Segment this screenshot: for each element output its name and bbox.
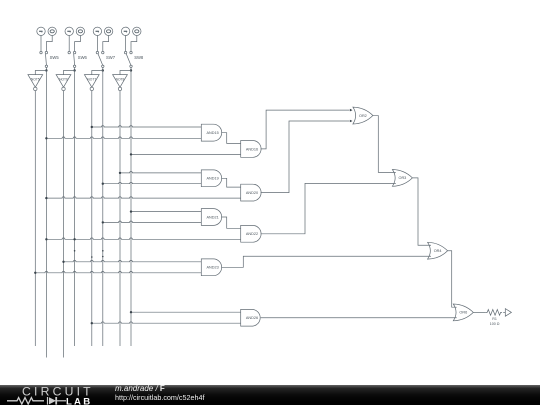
logic source 1 for SW5: [37, 27, 45, 35]
wire AND15 output to AND16 input: [221, 133, 240, 144]
svg-text:OR3: OR3: [398, 176, 406, 180]
logic source 0 for SW5: [48, 27, 56, 35]
wire OR2 output to OR3 input 1: [373, 116, 396, 173]
junction at SW8 output node: [130, 69, 132, 71]
junction on rail 1: [34, 272, 36, 274]
wire source-0 to SW5 right throw: [46, 36, 52, 52]
junction on rail 8: [130, 311, 132, 313]
wire source-1 to SW6 left throw: [68, 36, 70, 52]
junction on rail 2: [45, 137, 47, 139]
logic source 0 for SW7: [104, 27, 112, 35]
inverter NOT5: [28, 75, 43, 91]
wire source-0 to SW7 right throw: [103, 36, 109, 52]
logic source 1 for SW8: [121, 27, 129, 35]
wire source-0 to SW8 right throw: [131, 36, 137, 52]
wire source-1 to SW8 left throw: [125, 36, 127, 52]
wire AND21 input A (D) from rail: [131, 211, 201, 213]
and-gate AND23: [201, 259, 221, 276]
and-gate AND16: [241, 141, 261, 158]
junction on rail 2: [45, 238, 47, 240]
junction at SW7 output node: [102, 69, 104, 71]
or-gate OR3: [392, 170, 412, 187]
svg-text:AND19: AND19: [206, 177, 218, 181]
wire SW8 pole to node: [130, 68, 132, 71]
svg-text:SW7: SW7: [106, 55, 116, 60]
junction on rail 7: [119, 172, 121, 174]
svg-text:NOT7: NOT7: [87, 77, 96, 81]
wire AND16 input B (D) from rail: [131, 153, 241, 155]
wire AND21 output to AND22 input: [221, 217, 240, 228]
svg-text:OR2: OR2: [359, 114, 367, 118]
svg-text:NOT6: NOT6: [59, 77, 68, 81]
wire AND23 input B (A') from rail: [35, 271, 201, 272]
wire AND19 input A (D') from rail: [120, 172, 201, 173]
junction on rail 4: [73, 238, 75, 240]
and-gate AND26: [241, 309, 260, 326]
svg-text:AND20: AND20: [246, 191, 258, 195]
svg-text:OR4: OR4: [434, 249, 442, 253]
svg-text:AND15: AND15: [206, 131, 218, 135]
wire OR6 output to resistor R1: [473, 311, 486, 313]
wire AND15 input B (A) from rail: [46, 137, 201, 138]
wire AND23 output to OR4 input 2: [221, 256, 431, 267]
logic source 0 for SW6: [76, 27, 84, 35]
wire AND26 input B (C) from rail: [92, 322, 241, 323]
inverter NOT7: [84, 75, 99, 91]
wire SW7 node to NOT7 input: [92, 71, 103, 75]
inverter NOT8: [113, 75, 128, 91]
or-gate OR2: [353, 107, 373, 124]
wire AND23 input A (B') from rail: [64, 260, 202, 261]
svg-text:SW8: SW8: [134, 55, 144, 60]
or-gate OR4: [428, 242, 448, 259]
wire SW5 direct rail: [45, 71, 47, 358]
svg-text:LAB: LAB: [66, 396, 92, 406]
junction at SW5 output node: [45, 69, 47, 71]
and-gate AND15: [201, 124, 221, 141]
and-gate AND22: [241, 225, 261, 242]
wire AND19 input B (C) from rail: [103, 182, 202, 183]
junction on rail 8: [130, 210, 132, 212]
switch SW7: [96, 51, 116, 67]
junction on rail 6: [102, 221, 104, 223]
svg-text:AND23: AND23: [206, 266, 218, 270]
svg-text:AND26: AND26: [246, 316, 258, 320]
svg-text:AND21: AND21: [206, 215, 218, 219]
or-gate OR6: [453, 304, 473, 321]
wire NOT6 output rail: [63, 91, 65, 358]
junction on rail 3: [62, 261, 64, 263]
svg-text:100 Ω: 100 Ω: [490, 322, 500, 326]
svg-text:SW6: SW6: [78, 55, 88, 60]
junction on rail 2: [45, 197, 47, 199]
wire AND22 input B (A/B) from rail: [46, 238, 240, 239]
svg-text:NOT5: NOT5: [31, 77, 40, 81]
wire SW7 direct rail: [102, 71, 104, 347]
wire AND20 input B (A) from rail: [46, 197, 240, 198]
wire source-0 to SW6 right throw: [75, 36, 81, 52]
and-gate AND21: [201, 209, 221, 226]
footer text: [115, 384, 205, 403]
wire SW6 node to NOT6 input: [64, 71, 75, 75]
wire NOT8 output rail: [119, 91, 121, 346]
wire SW6 pole to node: [74, 68, 76, 71]
wire AND26 output to OR6 input 2: [261, 317, 457, 319]
and-gate AND20: [241, 184, 261, 201]
wire joint on rail: [102, 256, 104, 258]
CircuitLab logo: [6, 386, 106, 411]
wire AND19 output to AND20 input: [221, 178, 240, 187]
wire source-1 to SW5 left throw: [40, 36, 42, 52]
svg-text:OR6: OR6: [459, 311, 467, 315]
logic source 0 for SW8: [133, 27, 141, 35]
wire joint on rail: [74, 250, 76, 252]
wire SW7 pole to node: [102, 68, 104, 71]
arrowhead at OR2 input 2: [350, 120, 353, 123]
svg-text:AND16: AND16: [246, 147, 258, 151]
inverter NOT6: [56, 75, 71, 91]
svg-text:NOT8: NOT8: [116, 77, 125, 81]
wire AND15 input A (C) from rail: [92, 126, 202, 127]
junction at SW6 output node: [73, 69, 75, 71]
wire AND16 output to OR2 input 1: [261, 110, 350, 149]
svg-text:R1: R1: [492, 317, 497, 321]
junction on rail 8: [130, 153, 132, 155]
wire SW5 pole to node: [45, 68, 47, 71]
wire SW8 direct rail: [130, 71, 132, 347]
switch SW8: [124, 51, 144, 67]
wire AND22 output to OR3 input 2: [261, 183, 396, 233]
wire NOT5 output rail: [34, 91, 36, 346]
output pin F: [505, 309, 511, 317]
and-gate AND19: [201, 170, 221, 187]
svg-text:AND22: AND22: [246, 232, 258, 236]
svg-text:SW5: SW5: [50, 55, 60, 60]
switch SW5: [40, 51, 60, 67]
wire NOT7 output rail: [91, 91, 93, 346]
wire SW5 node to NOT5 input: [35, 71, 46, 75]
resistor R1 100 Ohm: [486, 310, 502, 327]
wire OR4 output to OR6 input 1: [448, 251, 457, 307]
wire SW8 node to NOT8 input: [120, 71, 131, 75]
wire joint on rail: [102, 250, 104, 252]
junction on rail 5: [91, 322, 93, 324]
wire source-1 to SW7 left throw: [96, 36, 98, 52]
wire resistor R1 to output pin: [503, 311, 505, 313]
wire AND20 output to OR2 input 2: [261, 121, 350, 193]
wire AND26 input A (D) from rail: [131, 311, 241, 313]
logic source 1 for SW6: [65, 27, 73, 35]
arrowhead at OR2 input 1: [350, 109, 353, 112]
logic source 1 for SW7: [93, 27, 101, 35]
switch SW6: [68, 51, 88, 67]
wire OR3 output to OR4 input 1: [412, 178, 431, 245]
junction on rail 5: [91, 126, 93, 128]
wire joint on rail: [91, 256, 93, 258]
junction on rail 6: [102, 183, 104, 185]
wire AND21 input B (C) from rail: [103, 221, 202, 222]
wire SW6 direct rail: [74, 71, 76, 347]
